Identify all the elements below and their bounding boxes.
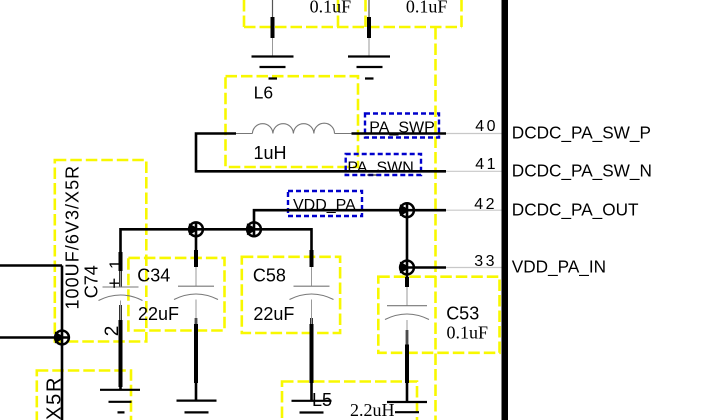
PA_SWN label box (346, 154, 421, 175)
svg-text:0.1uF: 0.1uF (447, 323, 489, 343)
cap1 0.1uF thick lead (271, 17, 275, 38)
wire riser x407 (406, 203, 409, 277)
svg-text:PA_SWN: PA_SWN (347, 159, 413, 176)
gray pin stub lines to IC bar (446, 134, 502, 268)
ground C74 (100, 390, 140, 413)
wires black (0, 132, 446, 420)
svg-text:1uH: 1uH (254, 143, 287, 163)
wire C74 bottom lead (119, 305, 122, 390)
svg-text:C34: C34 (137, 266, 170, 286)
thick capacitor lead segments (121, 17, 408, 387)
wire left top horizontal (0, 264, 62, 267)
svg-text:100UF/6V3/X5R: 100UF/6V3/X5R (63, 165, 83, 310)
C34 thick leads (194, 250, 198, 383)
cap2 0.1uF lower thin lead (368, 38, 370, 57)
svg-text:L5: L5 (312, 390, 332, 410)
svg-text:DCDC_PA_SW_N: DCDC_PA_SW_N (512, 161, 652, 181)
svg-text:1: 1 (106, 260, 125, 269)
ground cap2 (348, 57, 390, 79)
svg-text:DCDC_PA_SW_P: DCDC_PA_SW_P (512, 123, 651, 143)
wire C53 bottom lead (406, 330, 409, 402)
inductor L5 box (282, 382, 417, 420)
VDD_PA label box (288, 191, 362, 216)
blue dashed net-label boxes (288, 114, 439, 217)
wire C34 bottom lead (195, 318, 198, 401)
svg-text:42: 42 (474, 196, 497, 213)
wire VDD_PA pin 42 (254, 210, 446, 236)
junction node VDD wire x407 (400, 203, 414, 217)
svg-text:VDD_PA_IN: VDD_PA_IN (512, 257, 606, 277)
junction node pin33 x407 (400, 261, 414, 275)
C53 thin leads (406, 287, 408, 345)
inductor L6 symbol (236, 123, 352, 133)
wire PA_SWP pin 40 (352, 132, 447, 135)
capacitor C58 box (242, 257, 340, 333)
wire PA_SWN from L6 left (196, 132, 446, 171)
C53 plates (385, 306, 429, 320)
svg-text:DCDC_PA_OUT: DCDC_PA_OUT (512, 200, 639, 220)
junction node left wire (55, 331, 69, 345)
C58 thick leads (310, 250, 314, 383)
ground cap1 (252, 57, 294, 79)
svg-text:0.1uF: 0.1uF (310, 0, 352, 17)
wire left lower horizontal (0, 336, 70, 339)
C74 plates (99, 287, 143, 301)
big region right edge vertical (434, 28, 437, 420)
svg-text:33: 33 (474, 253, 497, 270)
top box B right edge (460, 0, 463, 27)
capacitor plates (99, 286, 430, 319)
PA_SWP label box (365, 114, 439, 138)
wire pin 33 (400, 266, 446, 269)
top group box bottom edge (244, 26, 462, 29)
C34 plates (174, 286, 218, 299)
C74 thick leads (119, 252, 123, 387)
wire bus to caps (121, 229, 312, 287)
svg-text:41: 41 (475, 156, 498, 173)
pin 33 stub (446, 267, 502, 269)
cap2 0.1uF upper lead (368, 0, 370, 17)
svg-text:+: + (104, 278, 125, 289)
inductor L6 box (226, 76, 359, 167)
capacitor /X5R box bottom-left (37, 371, 131, 420)
svg-text:40: 40 (475, 118, 498, 135)
pin 42 stub (446, 209, 502, 211)
top box B left edge (364, 0, 367, 27)
C74 thin leads (120, 271, 122, 320)
thin gray cap leads (121, 38, 408, 345)
C58 plates (290, 286, 334, 299)
svg-text:C53: C53 (446, 304, 479, 324)
svg-text:2.2uH: 2.2uH (350, 400, 395, 420)
capacitor C34 box (128, 258, 224, 331)
capacitor C53 box (378, 277, 499, 353)
capacitor C74 box (55, 160, 147, 342)
C53 thick leads (405, 277, 409, 383)
pin 40 stub (446, 133, 502, 135)
wire C58 bottom lead (310, 318, 313, 401)
cap1 0.1uF upper lead (272, 0, 274, 17)
ground C34 (177, 401, 217, 413)
junction node bus-VDD riser (247, 222, 261, 236)
svg-text:0.1uF: 0.1uF (406, 0, 448, 17)
svg-text:VDD_PA: VDD_PA (293, 197, 356, 214)
svg-text:C58: C58 (253, 266, 286, 286)
C58 thin leads (311, 267, 313, 324)
svg-text:22uF: 22uF (138, 304, 179, 324)
svg-text:PA_SWP: PA_SWP (369, 120, 435, 137)
svg-text:L6: L6 (254, 83, 273, 103)
svg-text:22uF: 22uF (253, 304, 294, 324)
wire left vertical (61, 266, 64, 420)
cap1 0.1uF lower thin lead (272, 38, 274, 57)
ground C58 (292, 401, 332, 413)
svg-text:C74: C74 (82, 265, 102, 298)
C34 thin leads (195, 267, 197, 324)
wire C34 top lead (195, 222, 198, 267)
svg-text:2: 2 (102, 326, 123, 337)
ground C53 (387, 402, 427, 412)
yellow dashed group box top (around C? 0.1uF caps) (37, 0, 500, 420)
svg-text:/X5R: /X5R (44, 376, 66, 420)
pin 41 stub (446, 170, 502, 172)
ground symbols (100, 57, 427, 413)
top box A right edge (337, 0, 340, 27)
junction node bus-C34 (189, 222, 203, 236)
cap2 0.1uF thick lead (367, 17, 371, 38)
top box A left edge (243, 0, 246, 27)
IC U? boundary bar (502, 0, 509, 420)
